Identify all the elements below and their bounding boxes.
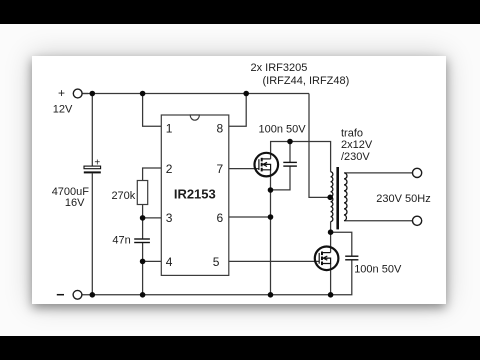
wire secondary bottom lead — [345, 220, 412, 222]
IC U1 IR2153 body — [161, 115, 229, 275]
svg-text:2x12V: 2x12V — [341, 139, 373, 151]
wire left branch vertical (4700uF) bottom — [91, 173, 93, 294]
wire secondary top lead — [345, 172, 412, 174]
svg-text:3: 3 — [166, 211, 173, 225]
wire pin2 to resistor — [143, 168, 162, 181]
wire ground bottom rail — [82, 260, 352, 295]
svg-text:2x IRF3205: 2x IRF3205 — [251, 62, 308, 74]
node dot ground rail at upper source — [268, 292, 274, 298]
capacitor C3 100n 50V upper plates — [283, 162, 297, 166]
wire pin8 to rail — [229, 94, 246, 127]
svg-text:2: 2 — [166, 162, 173, 176]
wire pin1 from rail — [143, 94, 162, 127]
node dot top rail at C1 — [90, 91, 96, 97]
svg-text:47n: 47n — [112, 235, 130, 247]
svg-text:1: 1 — [166, 121, 173, 135]
wire plus terminal stub — [82, 93, 88, 95]
wire 47n to pin4 node and ground rail — [142, 243, 144, 295]
transformer T1 primary winding — [331, 172, 333, 222]
transistor Q2 lower MOSFET — [315, 246, 339, 270]
svg-text:7: 7 — [217, 162, 224, 176]
svg-text:230V 50Hz: 230V 50Hz — [376, 193, 430, 205]
svg-text:IR2153: IR2153 — [174, 186, 216, 201]
svg-text:/230V: /230V — [341, 151, 370, 163]
wire pin5 to lower mosfet gate — [229, 260, 319, 262]
wire pin7 to upper mosfet gate — [229, 168, 259, 170]
capacitor C1 4700uF electrolytic top plate — [84, 166, 101, 169]
node dot ground rail at C1 — [90, 292, 96, 298]
svg-text:6: 6 — [217, 211, 224, 225]
node dot ground rail at 47n — [140, 292, 146, 298]
wire pin3 stub — [143, 217, 162, 219]
wire lower snubber branch top — [331, 232, 352, 256]
svg-text:100n 50V: 100n 50V — [354, 264, 402, 276]
svg-text:4: 4 — [166, 255, 173, 269]
capacitor C2 47n plates — [134, 239, 150, 243]
node dot upper source — [268, 187, 274, 193]
svg-text:trafo: trafo — [341, 128, 363, 140]
wire pin4 stub — [143, 260, 162, 262]
wire upper snubber cap top — [289, 142, 291, 163]
letterbox top bar — [0, 0, 480, 24]
transformer T1 secondary winding — [344, 173, 347, 221]
terminal +12V circle — [73, 89, 82, 98]
wire top supply rail — [82, 93, 309, 95]
terminal minus circle — [73, 290, 82, 299]
wire upper drain to transformer top — [271, 142, 331, 172]
svg-text:12V: 12V — [53, 104, 73, 116]
svg-text:8: 8 — [217, 121, 224, 135]
label minus of supply — [57, 294, 64, 296]
node dot pin6 junction — [268, 214, 274, 220]
wire primary bottom to lower drain — [330, 222, 332, 253]
node dot primary bottom — [328, 229, 334, 235]
svg-text:16V: 16V — [65, 197, 85, 209]
node dot ground rail at lower source — [328, 292, 334, 298]
terminal output bottom circle — [413, 216, 422, 225]
svg-text:270k: 270k — [111, 190, 135, 202]
wire upper snubber cap bottom to source — [271, 166, 291, 190]
svg-text:(IRFZ44, IRFZ48): (IRFZ44, IRFZ48) — [263, 75, 350, 87]
node dot top rail at pin1 — [140, 91, 146, 97]
terminal output top circle — [413, 168, 422, 177]
node dot top rail at pin8 — [243, 91, 249, 97]
svg-text:100n 50V: 100n 50V — [259, 124, 307, 136]
white schematic page — [32, 56, 446, 304]
svg-text:+: + — [94, 157, 100, 168]
svg-text:5: 5 — [213, 255, 220, 269]
wire resistor to pin3 node — [142, 205, 144, 218]
wire upper source down to ground rail — [270, 170, 272, 295]
wire left branch vertical (4700uF) top — [91, 94, 93, 167]
node dot pin3 junction — [140, 215, 146, 221]
capacitor C4 100n 50V lower plates — [345, 256, 358, 260]
resistor R1 270k body — [137, 181, 147, 205]
node dot pin4 junction — [140, 259, 146, 265]
capacitor C1 4700uF electrolytic bottom plate — [84, 171, 101, 173]
wire Vcc drop to center tap — [309, 94, 330, 198]
wire pin6 to upper source node — [229, 216, 271, 218]
transformer T1 core — [336, 167, 339, 229]
wire node3 down to 47n — [142, 218, 144, 239]
IC U1 notch — [190, 115, 199, 120]
letterbox bottom bar — [0, 336, 480, 360]
transistor Q1 upper MOSFET — [254, 153, 278, 177]
wire lower source to ground rail — [330, 264, 332, 295]
svg-text:+: + — [58, 86, 65, 100]
node dot drain wire at C3 — [287, 139, 293, 145]
node dot transformer center tap — [327, 195, 333, 201]
